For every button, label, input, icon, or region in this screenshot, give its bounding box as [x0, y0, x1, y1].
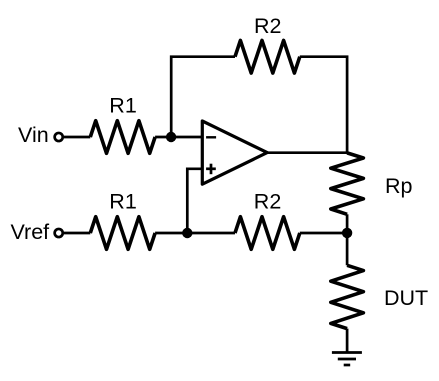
svg-text:Vin: Vin — [18, 123, 49, 147]
wire R2 to node C — [300, 232, 347, 235]
wire DUT to ground — [346, 329, 349, 353]
wire op-amp output to Rp column — [267, 151, 347, 154]
svg-text:R2: R2 — [254, 14, 281, 38]
resistor R2 (feedback) — [235, 40, 300, 73]
wire Vref terminal to R1 — [64, 232, 90, 235]
svg-text:DUT: DUT — [384, 286, 428, 310]
svg-text:Vref: Vref — [11, 220, 50, 244]
wire Vin terminal to R1 — [64, 136, 90, 139]
svg-text:R1: R1 — [109, 94, 136, 118]
ground — [332, 353, 362, 366]
wire node C to DUT — [346, 233, 349, 265]
op-amp U1 — [202, 121, 267, 184]
resistor R1 (top) — [90, 121, 155, 154]
input terminal Vref — [55, 229, 63, 237]
wire R1 to op-amp inverting input — [155, 136, 202, 139]
wire feedback: node A up and right to R2 — [171, 57, 235, 137]
node C junction dot — [342, 228, 352, 238]
resistor R1 (bottom) — [90, 217, 155, 250]
svg-text:Rp: Rp — [385, 174, 413, 198]
wire R2 right and down to output node — [300, 57, 347, 154]
input terminal Vin — [55, 133, 63, 141]
wire R1 to node B and on to R2 — [155, 232, 235, 235]
resistor R2 (bottom) — [235, 217, 300, 250]
resistor Rp — [331, 153, 364, 214]
resistor DUT — [331, 265, 364, 328]
wire node B up to op-amp non-inverting input — [187, 169, 202, 233]
node B junction dot — [182, 228, 192, 238]
node A junction dot — [166, 132, 176, 142]
wire Rp to node C — [346, 214, 349, 233]
svg-text:R2: R2 — [254, 190, 281, 214]
svg-text:R1: R1 — [109, 190, 136, 214]
